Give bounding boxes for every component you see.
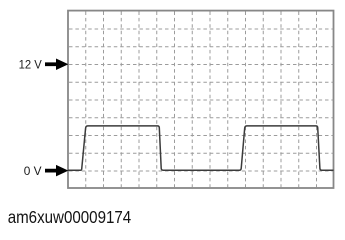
12 V reference arrow bbox=[45, 59, 68, 71]
0 V reference arrow bbox=[45, 165, 68, 177]
svg-text:12 V: 12 V bbox=[19, 57, 42, 71]
vertical gridlines bbox=[86, 12, 317, 188]
horizontal gridlines bbox=[69, 29, 333, 171]
svg-text:0 V: 0 V bbox=[24, 164, 42, 178]
oscilloscope graticule frame bbox=[68, 11, 334, 188]
svg-text:am6xuw00009174: am6xuw00009174 bbox=[8, 207, 132, 227]
square-wave signal trace bbox=[68, 126, 334, 170]
